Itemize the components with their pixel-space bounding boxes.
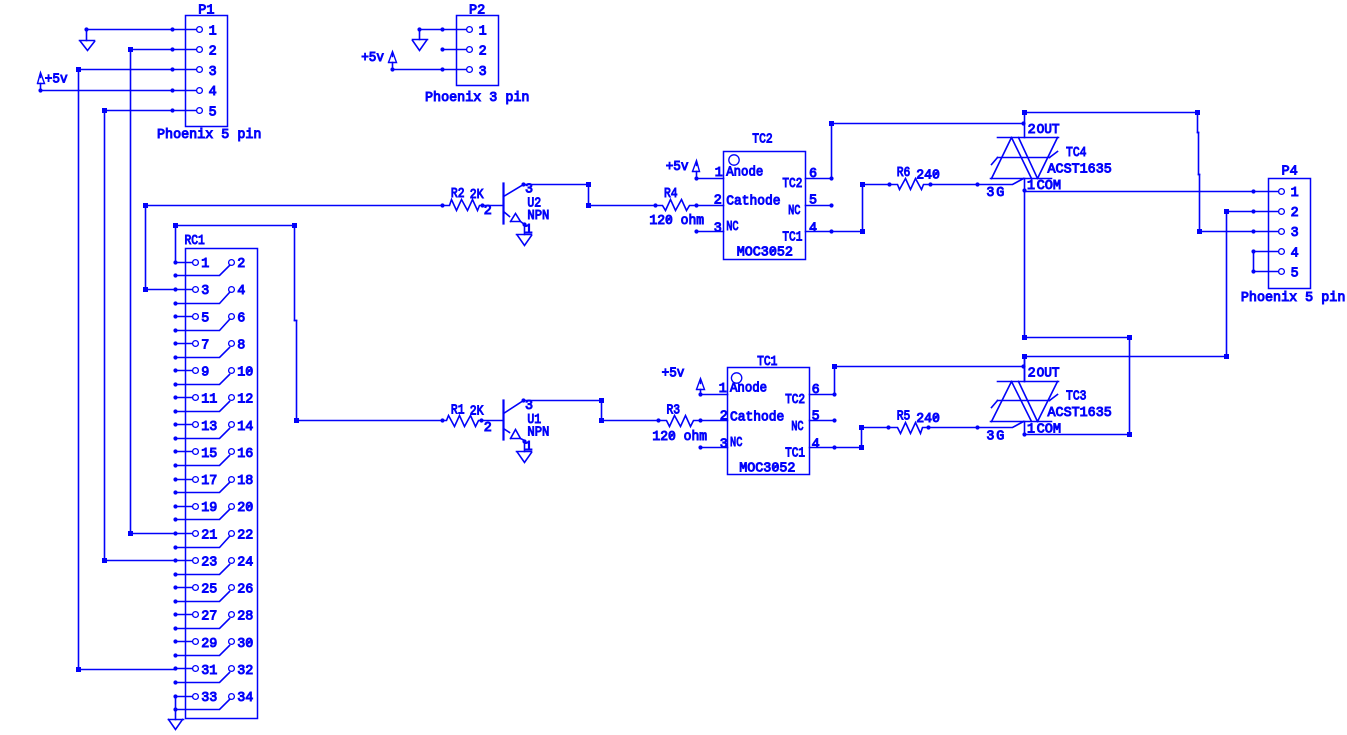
TC2 pin 1 Anode (697, 178, 724, 180)
svg-text:1: 1 (1291, 186, 1299, 201)
connector RC1 pin 8 (229, 341, 235, 347)
TC1 pin 3 NC (701, 447, 728, 449)
connector RC1 pin 29 (176, 641, 193, 643)
svg-text:1: 1 (715, 166, 723, 181)
triac TC3 pin 2 OUT lead (1024, 357, 1026, 382)
connector RC1 pin 2 (229, 260, 235, 266)
wire RC1 pin3 to R2 (146, 289, 176, 291)
svg-text:8: 8 (237, 339, 245, 354)
svg-text:9: 9 (201, 366, 209, 381)
connector RC1 pin 27 (176, 614, 193, 616)
svg-text:5: 5 (209, 105, 217, 120)
connector RC1 pin 34 (229, 694, 235, 700)
svg-text:Anode: Anode (730, 382, 767, 397)
connector RC1 pin 10 (229, 368, 235, 374)
svg-text:27: 27 (201, 610, 217, 625)
connector P4 pin 2 (1254, 211, 1279, 213)
triac TC4 symbol (998, 137, 1059, 139)
wire +5v to P2 pin3 (393, 69, 443, 71)
svg-text:Phoenix 5 pin: Phoenix 5 pin (1241, 291, 1345, 306)
connector RC1 pin 22 (229, 531, 235, 537)
svg-text:12: 12 (237, 393, 253, 408)
svg-text:Phoenix 3 pin: Phoenix 3 pin (425, 91, 529, 106)
svg-text:P1: P1 (198, 4, 214, 19)
svg-text:2: 2 (1028, 367, 1036, 382)
svg-text:120 ohm: 120 ohm (652, 430, 707, 445)
wire top rail down to R1 (294, 226, 296, 321)
svg-text:2: 2 (237, 257, 245, 272)
svg-text:19: 19 (201, 501, 217, 516)
svg-text:4: 4 (812, 437, 820, 452)
svg-text:Phoenix 5 pin: Phoenix 5 pin (157, 128, 261, 143)
svg-text:33: 33 (201, 691, 217, 706)
svg-text:120 ohm: 120 ohm (649, 214, 704, 229)
power +5v (P2 pin3) (389, 52, 397, 63)
connector RC1 pin 13 (176, 424, 193, 426)
svg-text:G: G (996, 430, 1004, 445)
TC2 pin 3 NC (697, 231, 724, 233)
connector P2 pin 3 (443, 69, 467, 71)
connector P1 pin 1 (173, 29, 197, 31)
svg-text:32: 32 (237, 664, 253, 679)
connector P2 pin 2 (443, 49, 467, 51)
connector RC1 pin 12 (229, 395, 235, 401)
connector RC1 pin 6 (229, 314, 235, 320)
svg-text:TC1: TC1 (757, 355, 777, 370)
connector RC1 pin 21 (176, 533, 193, 535)
svg-text:R3: R3 (667, 403, 681, 418)
svg-text:5: 5 (201, 311, 209, 326)
svg-text:R2: R2 (451, 187, 465, 202)
connector RC1 pin 20 (229, 504, 235, 510)
svg-text:+5v: +5v (662, 367, 685, 382)
svg-text:TC3: TC3 (1066, 389, 1087, 404)
svg-text:1: 1 (719, 382, 727, 397)
connector P1 pin 2 (173, 49, 197, 51)
wire P1 pin5 to RC1 pin23 (105, 110, 173, 112)
svg-text:13: 13 (201, 420, 217, 435)
svg-text:5: 5 (1291, 266, 1299, 281)
svg-text:R4: R4 (664, 187, 678, 202)
resistor R6 (890, 179, 931, 190)
ground (P2 pin1) (413, 39, 428, 41)
svg-text:3: 3 (1291, 226, 1299, 241)
wire U1 collector to R3 (524, 400, 602, 402)
connector P1 pin 4 (173, 90, 197, 92)
svg-text:6: 6 (809, 167, 817, 182)
svg-text:P4: P4 (1282, 165, 1298, 180)
resistor R1 (443, 416, 482, 427)
wire TC1 pin6 up to TC3 (834, 367, 836, 395)
connector RC1 pin 14 (229, 422, 235, 428)
connector RC1 pin 31 (176, 668, 193, 670)
opto-coupler TC1 box (728, 368, 810, 475)
svg-text:COM: COM (1037, 423, 1062, 438)
resistor R5 (889, 423, 929, 434)
svg-text:2: 2 (714, 194, 722, 209)
svg-text:26: 26 (237, 583, 253, 598)
svg-text:3: 3 (986, 186, 994, 201)
triac TC4 gate lead (978, 179, 1024, 185)
power +5v (P1 pin4) (38, 73, 45, 84)
wire P4 pin4 to pin5 jumper (1253, 252, 1255, 272)
connector RC1 pin 32 (229, 666, 235, 672)
svg-text:+5v: +5v (361, 51, 384, 66)
svg-text:5: 5 (812, 410, 820, 425)
wire TC4 1COM loop to TC3 1COM (1024, 191, 1026, 338)
wire P1 pin3 to RC1 pin31 (79, 69, 173, 71)
svg-text:MOC3052: MOC3052 (737, 246, 793, 261)
connector P2 box (457, 16, 499, 86)
wire P1 pin1 to ground (87, 29, 173, 31)
svg-text:2: 2 (1028, 123, 1036, 138)
svg-text:31: 31 (201, 664, 217, 679)
svg-text:24: 24 (237, 555, 253, 570)
svg-text:RC1: RC1 (185, 234, 205, 249)
connector RC1 pin 19 (176, 506, 193, 508)
connector RC1 box (186, 249, 258, 719)
TC2 pin 2 Cathode (697, 205, 724, 207)
TC1 pin 2 Cathode (701, 420, 728, 422)
triac TC3 gate lead (978, 422, 1024, 428)
wire +5v to P1 pin4 (41, 90, 173, 92)
svg-text:3: 3 (209, 65, 217, 80)
svg-text:+5v: +5v (45, 72, 68, 87)
connector RC1 pin 7 (176, 343, 193, 345)
connector RC1 pin 9 (176, 370, 193, 372)
triac TC4 pin 2 OUT lead (1024, 113, 1026, 138)
svg-text:TC2: TC2 (785, 393, 805, 408)
svg-text:28: 28 (237, 610, 253, 625)
wire R6 to TC4 gate (931, 184, 978, 186)
connector P4 box (1269, 179, 1311, 289)
TC2 pin 6 TC2 (806, 178, 832, 180)
svg-text:2K: 2K (470, 405, 485, 420)
triac TC3 pin 1 COM lead (1024, 422, 1026, 435)
svg-text:2: 2 (1291, 206, 1299, 221)
svg-text:29: 29 (201, 637, 217, 652)
svg-text:18: 18 (237, 474, 253, 489)
svg-text:R6: R6 (897, 166, 911, 181)
connector P4 pin 3 (1254, 231, 1279, 233)
connector RC1 pin 25 (176, 587, 193, 589)
svg-text:G: G (996, 186, 1004, 201)
svg-text:4: 4 (209, 85, 217, 100)
wire TC2 pin6 up to TC4 (831, 124, 833, 179)
connector RC1 pin 4 (229, 287, 235, 293)
connector P2 pin 1 (443, 29, 467, 31)
svg-text:TC4: TC4 (1066, 146, 1087, 161)
wire U2 collector to R4 (524, 184, 589, 186)
connector RC1 pin 24 (229, 558, 235, 564)
svg-text:22: 22 (237, 528, 253, 543)
wire TC4 2OUT to P4 pin3 (1022, 110, 1027, 115)
svg-text:17: 17 (201, 474, 217, 489)
wire TC4 1COM to P4 pin1 (1025, 191, 1254, 193)
wire TC1 pin4 to R5 (835, 447, 862, 449)
svg-text:15: 15 (201, 447, 217, 462)
connector RC1 pin 23 (176, 560, 193, 562)
power +5v (TC1 anode) (697, 379, 705, 390)
svg-text:3: 3 (720, 437, 728, 452)
svg-text:+5v: +5v (666, 160, 689, 175)
connector P4 pin 1 (1254, 191, 1279, 193)
wire R2 to U2 base (483, 205, 504, 207)
resistor R4 (656, 200, 697, 211)
svg-text:3: 3 (479, 65, 487, 80)
svg-text:5: 5 (809, 194, 817, 209)
connector P4 pin 4 (1254, 251, 1279, 253)
svg-text:4: 4 (237, 284, 245, 299)
connector RC1 pin 30 (229, 639, 235, 645)
svg-text:23: 23 (201, 555, 217, 570)
svg-text:OUT: OUT (1037, 367, 1060, 382)
svg-text:TC1: TC1 (782, 231, 802, 246)
transistor U2 NPN (502, 184, 504, 224)
svg-text:1: 1 (479, 25, 487, 40)
wire R1 to U1 base (482, 420, 504, 422)
svg-text:Cathode: Cathode (726, 194, 780, 209)
connector RC1 pin 17 (176, 479, 193, 481)
svg-text:4: 4 (809, 221, 817, 236)
TC1 pin 6 TC2 (810, 394, 835, 396)
svg-text:3: 3 (201, 284, 209, 299)
svg-text:NC: NC (788, 204, 800, 219)
connector RC1 pin 5 (176, 316, 193, 318)
svg-text:TC1: TC1 (785, 447, 805, 462)
TC1 pin 4 TC1 (810, 447, 835, 449)
svg-text:25: 25 (201, 583, 217, 598)
svg-text:TC2: TC2 (752, 132, 772, 147)
transistor U1 NPN (502, 401, 504, 440)
svg-text:R1: R1 (451, 404, 465, 419)
resistor R3 (659, 416, 701, 427)
svg-text:Cathode: Cathode (730, 410, 784, 425)
triac TC4 pin 1 COM lead (1024, 179, 1026, 191)
svg-text:ACST1635: ACST1635 (1048, 406, 1112, 421)
wire U1 emitter to ground (524, 442, 526, 452)
svg-text:6: 6 (237, 311, 245, 326)
svg-text:NPN: NPN (527, 209, 549, 224)
TC1 pin 1 Anode (701, 394, 728, 396)
svg-text:P2: P2 (469, 4, 485, 19)
svg-text:11: 11 (201, 393, 217, 408)
svg-text:1: 1 (1027, 423, 1035, 438)
connector RC1 pin 11 (176, 397, 193, 399)
svg-text:ACST1635: ACST1635 (1048, 163, 1112, 178)
svg-text:OUT: OUT (1037, 123, 1060, 138)
ground (P1 pin1) (80, 40, 95, 42)
wire R5 to TC3 gate (929, 427, 978, 429)
connector P1 pin 5 (173, 110, 197, 112)
connector RC1 pin 1 (176, 262, 193, 264)
connector RC1 pin 15 (176, 451, 193, 453)
wire P4 pin2 to TC3 2OUT (1227, 211, 1254, 213)
svg-text:21: 21 (201, 528, 217, 543)
ground (U1 emitter) (517, 451, 532, 453)
TC2 pin 4 TC1 (806, 231, 832, 233)
svg-text:TC2: TC2 (782, 177, 802, 192)
connector P4 pin 5 (1254, 271, 1279, 273)
wire RC1 pin1 net to top rail (173, 223, 178, 228)
connector P1 box (186, 16, 228, 127)
svg-text:1: 1 (201, 257, 209, 272)
connector RC1 pin 18 (229, 477, 235, 483)
svg-text:240: 240 (916, 412, 940, 427)
svg-text:MOC3052: MOC3052 (739, 462, 795, 477)
ground (RC1) (169, 719, 184, 721)
ground (U2 emitter) (517, 234, 532, 236)
svg-text:NC: NC (730, 436, 742, 451)
triac TC3 symbol (998, 381, 1059, 383)
svg-text:34: 34 (237, 691, 253, 706)
svg-text:3: 3 (714, 221, 722, 236)
wire P2 pin1 to ground (420, 29, 443, 31)
connector RC1 pin 26 (229, 585, 235, 591)
power +5v (TC2 anode) (693, 161, 700, 172)
svg-text:1: 1 (209, 25, 217, 40)
TC2 pin1 indicator circle (729, 155, 739, 165)
svg-text:14: 14 (237, 420, 253, 435)
svg-text:6: 6 (812, 383, 820, 398)
svg-text:2: 2 (209, 45, 217, 60)
svg-text:2: 2 (484, 204, 492, 219)
resistor R2 (443, 200, 483, 211)
svg-text:NC: NC (791, 420, 803, 435)
svg-text:4: 4 (1291, 246, 1299, 261)
svg-text:Anode: Anode (726, 166, 763, 181)
wire U2 emitter to ground (524, 225, 526, 235)
svg-text:3: 3 (986, 430, 994, 445)
svg-text:2: 2 (479, 45, 487, 60)
svg-text:2: 2 (720, 410, 728, 425)
svg-text:2: 2 (484, 421, 492, 436)
svg-text:16: 16 (237, 447, 253, 462)
TC2 pin 5 NC (806, 205, 832, 207)
wire RC1 pin33 to ground (175, 697, 177, 720)
TC1 pin1 indicator circle (731, 373, 741, 383)
connector RC1 pin 3 (176, 289, 193, 291)
connector RC1 pin 16 (229, 449, 235, 455)
svg-text:NPN: NPN (527, 426, 549, 441)
wire P1 pin2 to RC1 pin21 (131, 49, 173, 51)
svg-text:240: 240 (916, 169, 940, 184)
connector P1 pin 3 (173, 69, 197, 71)
TC1 pin 5 NC (810, 420, 835, 422)
svg-text:NC: NC (726, 220, 738, 235)
opto-coupler TC2 box (724, 152, 806, 260)
svg-text:2K: 2K (470, 188, 485, 203)
svg-text:7: 7 (201, 339, 209, 354)
svg-text:R5: R5 (897, 409, 911, 424)
wire TC2 pin4 to R6 (832, 231, 863, 233)
connector RC1 pin 33 (176, 696, 193, 698)
connector RC1 pin 28 (229, 612, 235, 618)
